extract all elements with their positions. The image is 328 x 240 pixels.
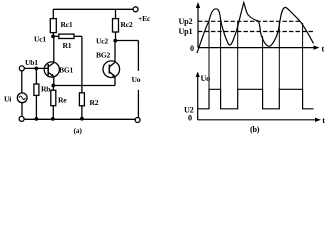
terminal output bottom (135, 118, 140, 123)
wire projection 2 (220, 21, 222, 89)
wire Ui bottom (21, 103, 23, 117)
wire emitter row (53, 85, 115, 87)
node rail R2 (80, 117, 84, 121)
node rail Re (51, 117, 55, 121)
wire Re top (52, 86, 54, 91)
wire Rc2 bottom stub (115, 32, 117, 41)
resistor Rc2 (113, 19, 119, 32)
svg-text:BG1: BG1 (59, 66, 73, 75)
wire R2 bottom stub (81, 106, 83, 120)
wire R1/R2 vertical (81, 36, 83, 93)
node Uc2 (113, 39, 117, 43)
wire projection 5 (278, 22, 280, 89)
wire Rb top (35, 68, 37, 84)
wire Rc2 top stub (115, 9, 117, 18)
arrow axis Y lower (196, 72, 200, 78)
wire BG1 emitter (53, 76, 55, 85)
axis X upper (198, 47, 316, 49)
svg-text:Re: Re (58, 95, 67, 104)
svg-text:Uo: Uo (132, 75, 141, 84)
svg-text:Up2: Up2 (179, 17, 193, 26)
resistor Rb (34, 84, 39, 95)
node Uc1 (51, 35, 55, 39)
svg-text:R2: R2 (90, 98, 99, 107)
svg-text:t: t (322, 116, 325, 125)
wire projection 1 (208, 21, 210, 89)
svg-text:Uo: Uo (201, 74, 211, 83)
resistor R2 (79, 93, 84, 106)
wire output upper (137, 41, 139, 71)
source Ui (17, 93, 27, 103)
svg-text:Uc1: Uc1 (34, 35, 46, 44)
arrow axis X lower (315, 118, 321, 122)
wire Rc1 top stub (52, 9, 54, 18)
wire BG1 collector (53, 37, 55, 63)
wire Re bottom (52, 106, 54, 120)
svg-text:t: t (322, 44, 325, 53)
svg-text:BG2: BG2 (96, 51, 110, 60)
arrow BG1 emitter (51, 74, 54, 77)
axis Y lower (197, 76, 199, 120)
wire Ui top (21, 71, 23, 93)
resistor R1 (59, 34, 74, 38)
wire Rb bottom (35, 95, 37, 119)
resistor Rc1 (50, 19, 56, 33)
dashed Up2 level (198, 20, 302, 22)
svg-text:Ui: Ui (4, 94, 11, 103)
wire base BG1 (24, 67, 48, 69)
wire Uc2 to output (116, 40, 139, 42)
wire projection 4 (262, 36, 264, 89)
node Ub1 (35, 67, 39, 71)
dashed Up1 level (198, 31, 315, 33)
axis X lower (198, 119, 317, 121)
wire projection 6 (302, 23, 304, 89)
wire top supply rail (53, 8, 133, 10)
node rail Rb (35, 117, 39, 121)
svg-text:Rb: Rb (41, 84, 50, 93)
wire projection 3 (237, 21, 239, 89)
svg-text:Rc1: Rc1 (61, 20, 73, 29)
axis Y upper (197, 6, 199, 48)
svg-text:0: 0 (190, 44, 194, 53)
transistor Q BG2 (103, 61, 120, 78)
waveform input (197, 3, 314, 54)
wire ground rail (24, 118, 135, 120)
svg-text:(b): (b) (250, 125, 260, 134)
svg-text:Ub1: Ub1 (25, 58, 38, 67)
svg-text:Rc2: Rc2 (121, 20, 133, 29)
svg-text:Uc2: Uc2 (96, 37, 108, 46)
wire output lower (137, 90, 139, 118)
waveform output square (198, 89, 314, 109)
node emitter (51, 84, 55, 88)
arrow axis X upper (314, 45, 320, 49)
resistor Re (51, 90, 56, 106)
wire BG2 collector (114, 41, 116, 63)
svg-text:R1: R1 (63, 41, 72, 50)
svg-text:0: 0 (188, 113, 192, 122)
wire Rc1 to node Uc1 (52, 33, 54, 37)
wire node Uc1 to R1 (53, 35, 59, 37)
terminal input top (19, 66, 24, 71)
transistor Q BG1 (44, 62, 59, 77)
terminal +Ec (133, 7, 138, 12)
svg-text:Up1: Up1 (179, 27, 193, 36)
arrow BG2 emitter (112, 74, 115, 77)
wire R1 right to corner (74, 35, 82, 37)
terminal input bottom (19, 116, 24, 121)
arrow axis Y upper (196, 2, 200, 8)
wire BG2 emitter riser (114, 77, 116, 86)
svg-text:(a): (a) (74, 126, 83, 135)
svg-text:+Ec: +Ec (138, 14, 151, 23)
